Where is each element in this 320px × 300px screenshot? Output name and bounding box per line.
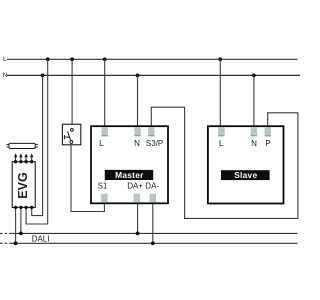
svg-text:DA-: DA- xyxy=(145,182,159,191)
Slave terminal N xyxy=(251,127,257,136)
svg-text:N: N xyxy=(251,139,257,148)
svg-text:EVG: EVG xyxy=(16,172,30,199)
Master terminal DA- xyxy=(150,194,156,203)
Master terminal DA+ xyxy=(134,194,140,203)
wire EVG pin2 to DALI line 1 xyxy=(20,207,22,233)
svg-text:N: N xyxy=(134,139,140,148)
svg-text:L: L xyxy=(3,56,7,63)
svg-text:S1: S1 xyxy=(98,182,108,191)
junction EVG pin1 on DALI line 2 xyxy=(14,241,18,245)
wire N to Slave terminal N xyxy=(253,75,255,127)
svg-text:L: L xyxy=(219,139,224,148)
wire EVG pin1 to DALI line 2 xyxy=(15,207,17,243)
push-button switch S xyxy=(62,124,80,145)
svg-text:L: L xyxy=(99,139,104,148)
junction EVG pin2 on DALI line 1 xyxy=(19,232,23,236)
junction on N for Master xyxy=(136,74,140,78)
Master terminal L xyxy=(102,127,108,136)
EVG lamp lead 2 with arrow xyxy=(19,153,22,161)
DALI bus line 1 (DA+) xyxy=(11,232,298,234)
svg-text:DA+: DA+ xyxy=(127,182,143,191)
svg-text:P: P xyxy=(265,139,270,148)
svg-text:S3/P: S3/P xyxy=(146,139,163,148)
control unit Slave xyxy=(208,126,284,203)
DALI bus line 1 (DA+) dashed left end xyxy=(0,232,11,234)
wire switch bottom to Master S1 xyxy=(71,143,104,211)
wire Master DA- to DALI line 2 xyxy=(152,203,154,243)
Slave terminal L xyxy=(218,127,224,136)
wire L to Slave terminal L xyxy=(219,59,221,127)
wire N to Master terminal N xyxy=(137,75,139,127)
junction on L for Slave xyxy=(218,57,222,61)
svg-text:DALI: DALI xyxy=(32,234,50,243)
DALI bus line 2 (DA-) dashed left end xyxy=(0,242,10,244)
DALI bus line 2 (DA-) xyxy=(10,242,298,244)
junction on L for Master xyxy=(103,57,107,61)
EVG lamp lead 3 with arrow xyxy=(24,153,27,161)
EVG lamp lead 4 with arrow xyxy=(30,153,33,161)
EVG lamp lead 1 with arrow xyxy=(14,153,17,161)
Slave terminal P xyxy=(265,127,271,136)
wire line L (mains phase) xyxy=(7,58,298,60)
control unit Master xyxy=(91,126,168,203)
wire L to EVG pin3 xyxy=(26,59,48,224)
Slave name plate xyxy=(221,170,270,180)
wire L to Master terminal L xyxy=(104,59,106,127)
wire Master DA+ to DALI line 1 xyxy=(137,203,139,233)
Master terminal S3/P xyxy=(148,127,154,136)
svg-text:N: N xyxy=(3,72,8,79)
ballast EVG xyxy=(12,162,35,208)
svg-text:Master: Master xyxy=(115,170,144,180)
Master name plate xyxy=(105,170,153,180)
wire line N (mains neutral) xyxy=(7,74,300,76)
fluorescent lamp tube xyxy=(6,143,38,148)
Master terminal N xyxy=(134,127,140,136)
Master terminal S1 xyxy=(101,194,107,203)
junction Master DA+ on DALI line 1 xyxy=(136,232,140,236)
junction on L for EVG xyxy=(46,57,50,61)
wire N to EVG pin4 xyxy=(32,75,43,215)
svg-text:Slave: Slave xyxy=(234,170,257,180)
wire L to switch top xyxy=(71,59,73,128)
EVG top pin dots xyxy=(14,160,34,163)
junction on N for Slave xyxy=(252,74,256,78)
junction Master DA- on DALI line 2 xyxy=(151,241,155,245)
EVG bottom pin dots xyxy=(14,206,34,209)
junction on L for switch xyxy=(70,57,74,61)
junction on N for EVG xyxy=(41,74,45,78)
wire Master S3/P to Slave P xyxy=(151,107,298,218)
